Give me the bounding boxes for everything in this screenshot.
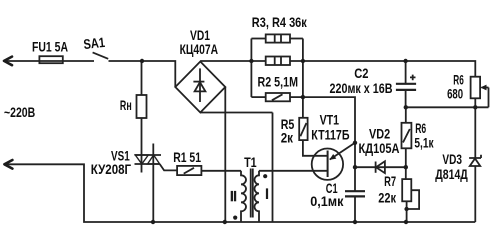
svg-text:КТ117Б: КТ117Б xyxy=(311,127,349,142)
svg-text:~220В: ~220В xyxy=(4,105,35,120)
svg-text:T1: T1 xyxy=(244,155,257,170)
svg-text:R3, R4 36к: R3, R4 36к xyxy=(252,15,307,30)
svg-text:C2: C2 xyxy=(354,66,369,81)
svg-text:VD1: VD1 xyxy=(190,28,210,43)
svg-text:VD2: VD2 xyxy=(369,126,390,141)
svg-text:КД105А: КД105А xyxy=(359,141,400,156)
svg-text:FU1 5A: FU1 5A xyxy=(32,40,68,55)
svg-text:680: 680 xyxy=(447,87,463,102)
svg-text:2к: 2к xyxy=(281,131,293,146)
svg-text:R6: R6 xyxy=(453,73,464,88)
svg-text:220мк х 16В: 220мк х 16В xyxy=(330,81,393,96)
svg-text:R7: R7 xyxy=(384,174,396,189)
svg-text:Rн: Rн xyxy=(120,98,132,113)
svg-text:R6: R6 xyxy=(415,121,426,136)
svg-text:R2 5,1M: R2 5,1M xyxy=(258,74,299,89)
svg-text:SA1: SA1 xyxy=(83,35,106,52)
svg-text:VD3: VD3 xyxy=(442,152,462,167)
svg-text:КУ208Г: КУ208Г xyxy=(91,162,131,177)
svg-text:VT1: VT1 xyxy=(320,113,340,128)
svg-text:5,1к: 5,1к xyxy=(414,136,433,151)
svg-text:22к: 22к xyxy=(378,190,396,205)
svg-text:0,1мк: 0,1мк xyxy=(310,194,343,209)
svg-text:КЦ407А: КЦ407А xyxy=(180,42,219,57)
svg-text:R1 51: R1 51 xyxy=(173,150,201,165)
svg-text:Д814Д: Д814Д xyxy=(435,167,468,182)
